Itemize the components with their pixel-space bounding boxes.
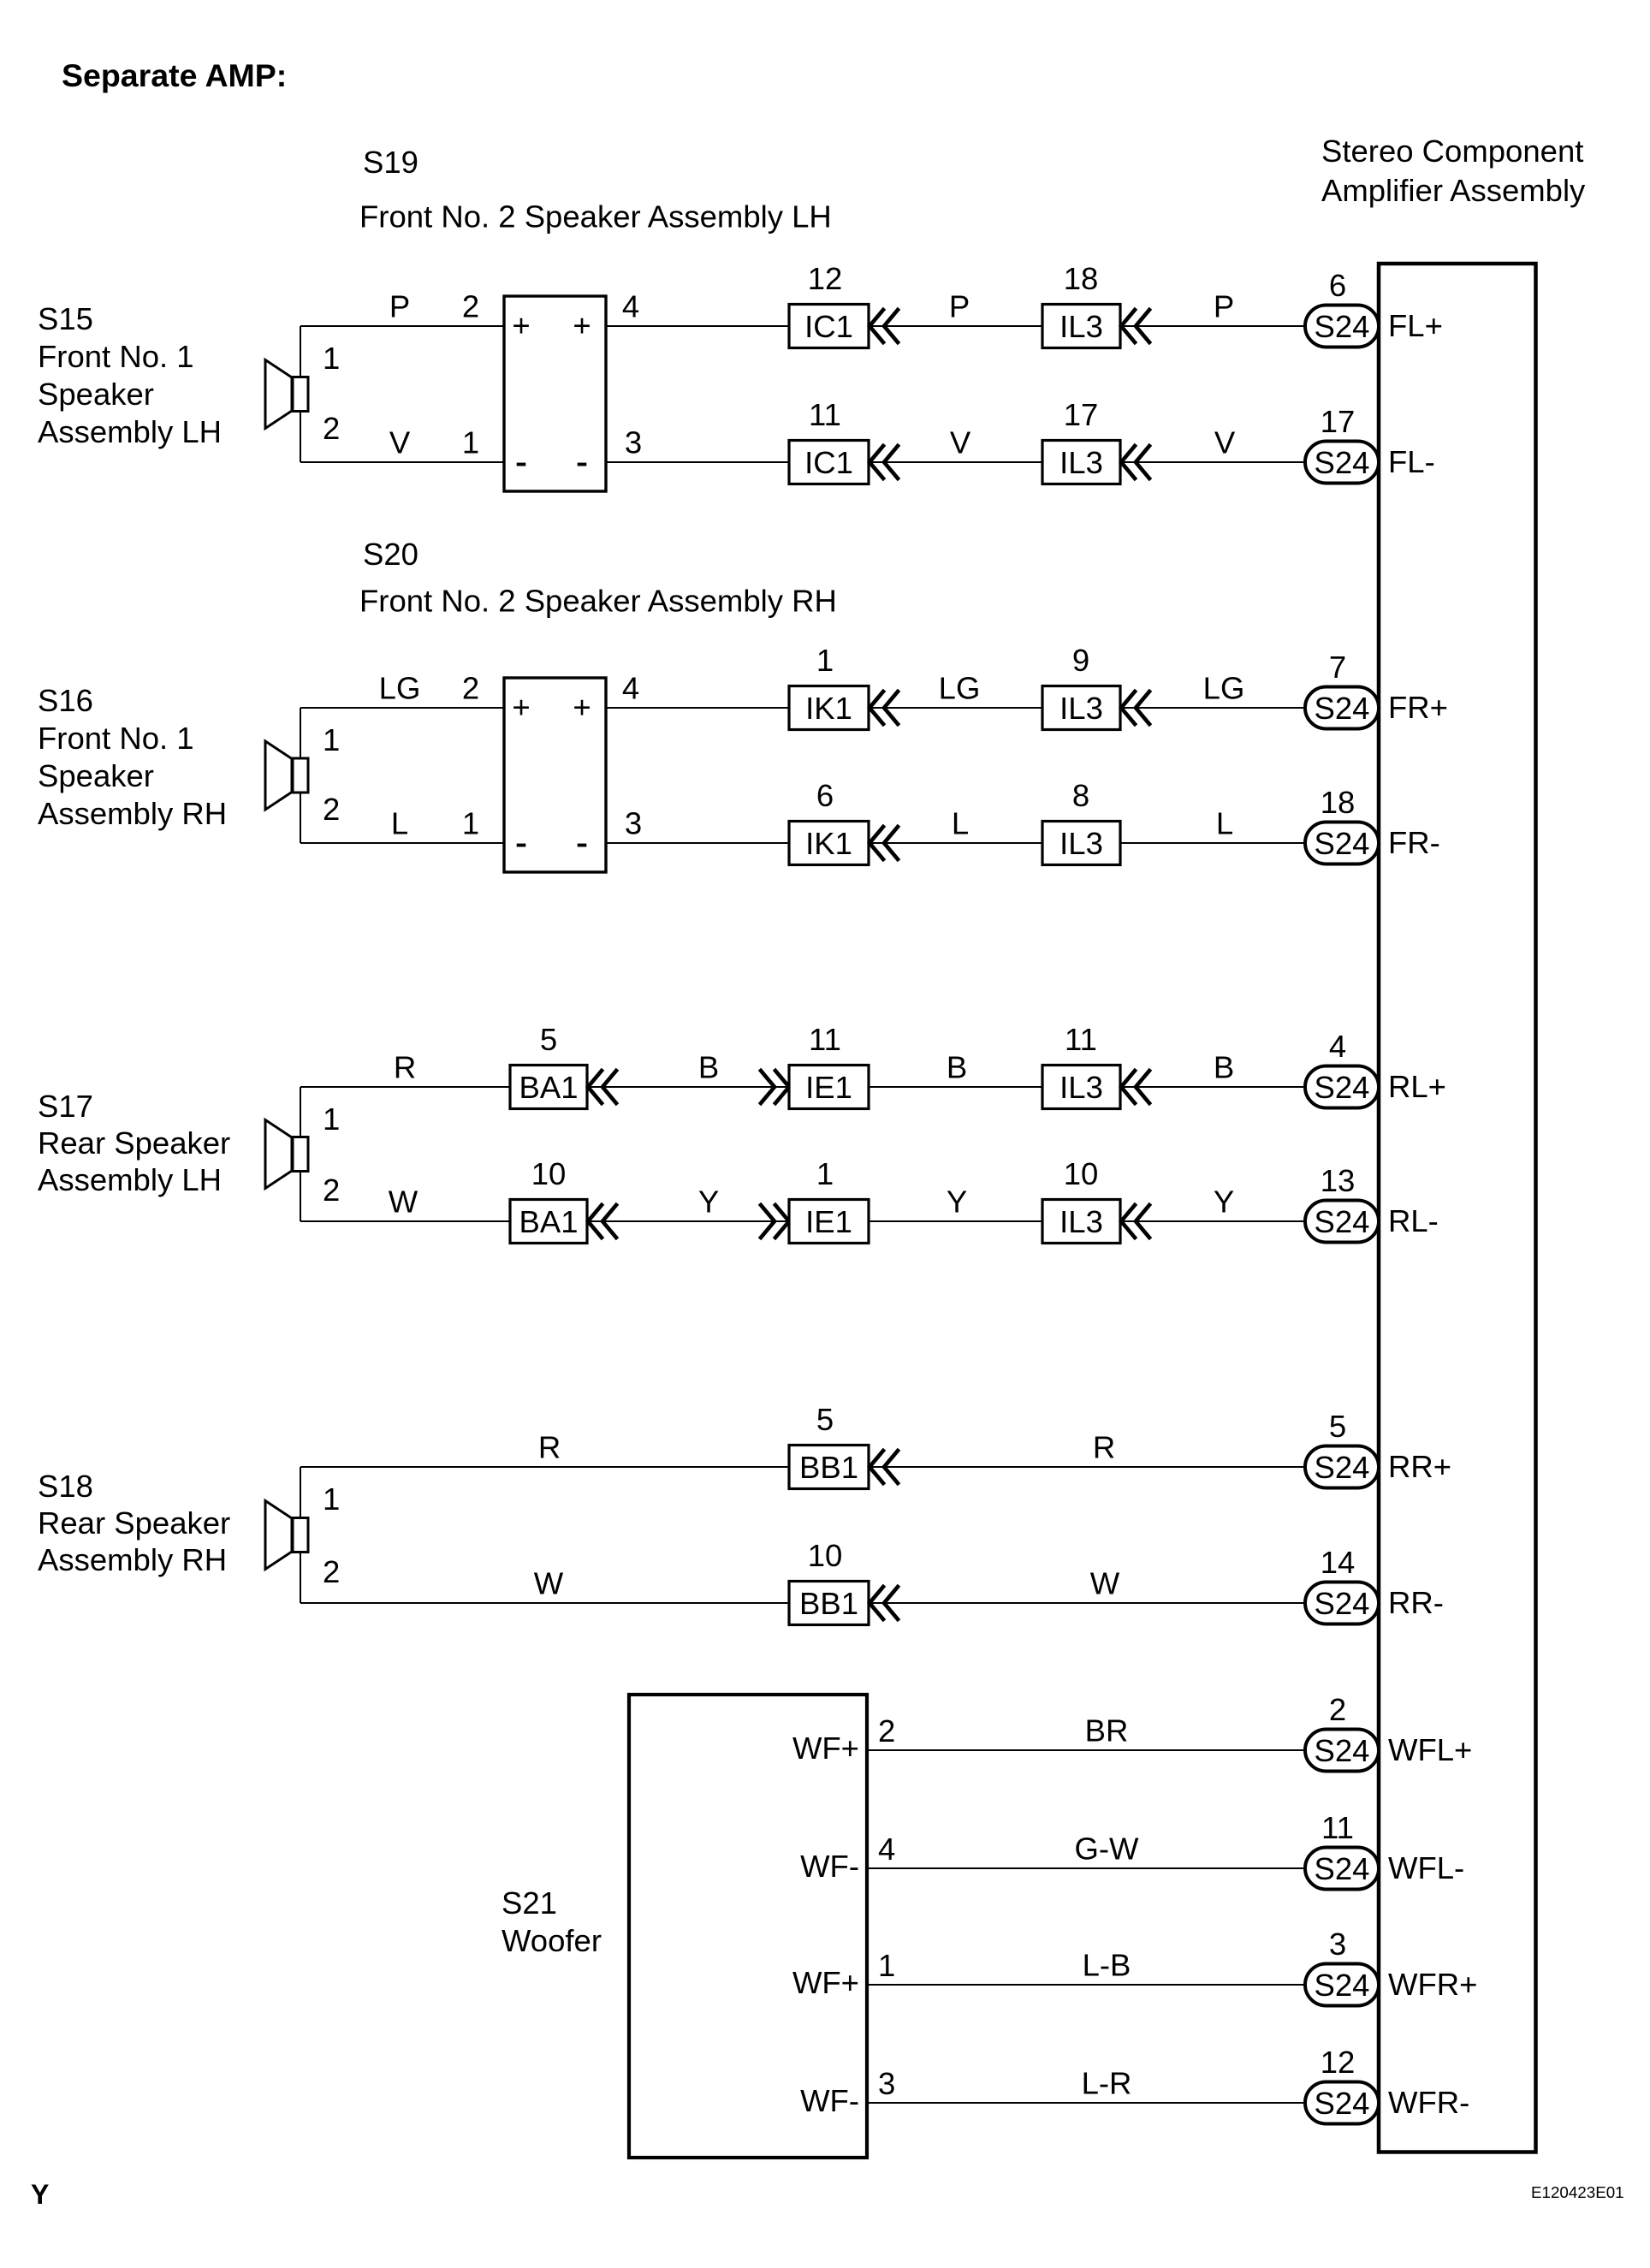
svg-text:3: 3	[625, 806, 642, 841]
svg-text:WFL-: WFL-	[1388, 1850, 1464, 1885]
svg-text:2: 2	[462, 289, 479, 324]
svg-text:Rear Speaker: Rear Speaker	[38, 1125, 230, 1161]
svg-text:Y: Y	[698, 1184, 719, 1220]
svg-text:S21: S21	[502, 1885, 557, 1921]
svg-text:3: 3	[625, 425, 642, 460]
svg-text:LG: LG	[379, 671, 421, 706]
svg-text:Y: Y	[947, 1184, 967, 1220]
svg-text:IL3: IL3	[1059, 445, 1103, 480]
svg-text:FR-: FR-	[1388, 825, 1440, 860]
svg-text:Front No. 2 Speaker Assembly L: Front No. 2 Speaker Assembly LH	[359, 199, 832, 235]
svg-text:6: 6	[816, 778, 834, 813]
svg-text:6: 6	[1329, 268, 1346, 303]
svg-text:+: +	[573, 690, 591, 725]
svg-text:RL-: RL-	[1388, 1203, 1439, 1238]
svg-text:4: 4	[1329, 1029, 1346, 1064]
svg-text:12: 12	[808, 261, 843, 296]
svg-text:14: 14	[1321, 1545, 1356, 1580]
svg-text:Assembly RH: Assembly RH	[38, 1542, 227, 1577]
svg-text:P: P	[389, 289, 410, 324]
svg-text:Y: Y	[1214, 1184, 1234, 1220]
svg-text:WFR+: WFR+	[1388, 1967, 1477, 2002]
svg-text:Assembly RH: Assembly RH	[38, 796, 227, 831]
svg-text:WF+: WF+	[792, 1731, 859, 1766]
svg-text:IL3: IL3	[1059, 691, 1103, 726]
svg-text:2: 2	[878, 1713, 895, 1748]
svg-text:FL-: FL-	[1388, 444, 1435, 479]
svg-text:R: R	[1093, 1430, 1115, 1465]
svg-text:Woofer: Woofer	[502, 1923, 602, 1958]
svg-text:3: 3	[878, 2066, 895, 2101]
svg-text:1: 1	[323, 341, 340, 376]
svg-text:IK1: IK1	[805, 691, 852, 726]
svg-text:RR+: RR+	[1388, 1449, 1451, 1484]
svg-text:S24: S24	[1315, 1968, 1370, 2003]
svg-text:10: 10	[531, 1156, 567, 1191]
svg-text:RR-: RR-	[1388, 1585, 1444, 1620]
svg-text:WF-: WF-	[800, 1849, 859, 1884]
svg-text:FR+: FR+	[1388, 690, 1448, 725]
svg-text:W: W	[389, 1184, 418, 1220]
svg-text:Front No. 2 Speaker Assembly R: Front No. 2 Speaker Assembly RH	[359, 584, 837, 619]
svg-text:Front No. 1: Front No. 1	[38, 339, 194, 374]
svg-text:4: 4	[622, 289, 639, 324]
svg-text:1: 1	[462, 806, 479, 841]
svg-text:RL+: RL+	[1388, 1069, 1446, 1104]
svg-text:S24: S24	[1315, 2086, 1370, 2121]
svg-text:WF-: WF-	[800, 2083, 859, 2118]
svg-text:L: L	[1216, 806, 1233, 841]
svg-text:5: 5	[540, 1022, 557, 1057]
svg-text:V: V	[1214, 425, 1236, 460]
svg-text:Front No. 1: Front No. 1	[38, 721, 194, 756]
svg-text:1: 1	[878, 1948, 895, 1983]
svg-text:IE1: IE1	[805, 1204, 852, 1239]
svg-text:S19: S19	[363, 145, 418, 180]
svg-text:13: 13	[1321, 1163, 1356, 1198]
svg-text:1: 1	[816, 1156, 834, 1191]
svg-text:LG: LG	[939, 671, 981, 706]
svg-text:IL3: IL3	[1059, 1204, 1103, 1239]
svg-text:E120423E01: E120423E01	[1531, 2183, 1624, 2201]
svg-text:S24: S24	[1315, 309, 1370, 344]
svg-text:Separate AMP:: Separate AMP:	[62, 57, 287, 93]
svg-text:2: 2	[323, 792, 340, 827]
svg-text:G-W: G-W	[1075, 1832, 1140, 1867]
svg-text:8: 8	[1072, 778, 1089, 813]
svg-text:S18: S18	[38, 1469, 93, 1504]
svg-text:Y: Y	[31, 2179, 49, 2210]
svg-text:Rear Speaker: Rear Speaker	[38, 1505, 230, 1541]
svg-text:4: 4	[622, 671, 639, 706]
svg-text:WFL+: WFL+	[1388, 1732, 1472, 1767]
svg-text:S24: S24	[1315, 826, 1370, 861]
svg-text:BB1: BB1	[799, 1586, 858, 1621]
svg-text:IL3: IL3	[1059, 826, 1103, 861]
svg-text:9: 9	[1072, 643, 1089, 678]
svg-text:W: W	[1090, 1566, 1120, 1601]
svg-text:IC1: IC1	[804, 309, 853, 344]
svg-text:1: 1	[323, 1481, 340, 1517]
svg-text:V: V	[389, 425, 411, 460]
svg-text:4: 4	[878, 1832, 895, 1867]
svg-text:S24: S24	[1315, 1204, 1370, 1239]
svg-text:LG: LG	[1203, 671, 1245, 706]
svg-text:V: V	[950, 425, 971, 460]
svg-text:17: 17	[1064, 397, 1099, 432]
svg-text:5: 5	[816, 1402, 834, 1437]
svg-text:IE1: IE1	[805, 1070, 852, 1105]
svg-text:17: 17	[1321, 404, 1356, 439]
svg-text:S24: S24	[1315, 445, 1370, 480]
svg-text:L-R: L-R	[1082, 2066, 1132, 2101]
svg-text:B: B	[698, 1050, 719, 1085]
svg-text:12: 12	[1321, 2045, 1356, 2080]
svg-text:1: 1	[462, 425, 479, 460]
svg-text:2: 2	[323, 1173, 340, 1208]
svg-text:7: 7	[1329, 650, 1346, 685]
svg-text:2: 2	[323, 1554, 340, 1589]
svg-text:BA1: BA1	[519, 1070, 579, 1105]
svg-text:IL3: IL3	[1059, 1070, 1103, 1105]
svg-text:Speaker: Speaker	[38, 377, 154, 412]
svg-text:B: B	[947, 1050, 967, 1085]
svg-text:10: 10	[1064, 1156, 1099, 1191]
svg-text:2: 2	[462, 671, 479, 706]
svg-text:L: L	[391, 806, 408, 841]
svg-text:Assembly LH: Assembly LH	[38, 414, 222, 449]
svg-text:+: +	[512, 690, 530, 725]
svg-text:R: R	[394, 1050, 416, 1085]
svg-text:+: +	[512, 308, 530, 343]
svg-text:2: 2	[323, 411, 340, 446]
svg-text:W: W	[534, 1566, 564, 1601]
svg-text:+: +	[573, 308, 591, 343]
svg-text:WFR-: WFR-	[1388, 2085, 1469, 2120]
svg-text:S15: S15	[38, 301, 93, 336]
svg-text:1: 1	[323, 722, 340, 757]
svg-text:IK1: IK1	[805, 826, 852, 861]
svg-text:BA1: BA1	[519, 1204, 579, 1239]
svg-text:WF+: WF+	[792, 1965, 859, 2000]
svg-text:11: 11	[1065, 1022, 1097, 1057]
svg-text:3: 3	[1329, 1927, 1346, 1962]
svg-text:P: P	[1214, 289, 1234, 324]
svg-text:S24: S24	[1315, 1586, 1370, 1621]
svg-text:18: 18	[1064, 261, 1099, 296]
svg-text:S24: S24	[1315, 1070, 1370, 1105]
svg-text:FL+: FL+	[1388, 308, 1443, 343]
svg-text:S24: S24	[1315, 1733, 1370, 1768]
svg-text:S17: S17	[38, 1089, 93, 1124]
svg-text:18: 18	[1321, 785, 1356, 820]
svg-text:BR: BR	[1085, 1713, 1129, 1748]
svg-text:5: 5	[1329, 1409, 1346, 1444]
svg-text:11: 11	[809, 397, 841, 432]
svg-text:11: 11	[809, 1022, 841, 1057]
svg-text:11: 11	[1321, 1810, 1354, 1845]
svg-text:10: 10	[808, 1538, 843, 1573]
svg-text:R: R	[538, 1430, 561, 1465]
svg-text:S24: S24	[1315, 1851, 1370, 1886]
svg-text:Stereo Component: Stereo Component	[1321, 134, 1583, 169]
svg-text:L: L	[952, 806, 969, 841]
svg-text:Speaker: Speaker	[38, 758, 154, 793]
svg-text:BB1: BB1	[799, 1450, 858, 1485]
svg-text:Amplifier Assembly: Amplifier Assembly	[1321, 173, 1586, 208]
svg-text:1: 1	[816, 643, 834, 678]
svg-text:IL3: IL3	[1059, 309, 1103, 344]
svg-text:1: 1	[323, 1101, 340, 1137]
svg-text:IC1: IC1	[804, 445, 853, 480]
svg-text:P: P	[949, 289, 970, 324]
svg-text:L-B: L-B	[1083, 1948, 1131, 1983]
svg-text:2: 2	[1329, 1692, 1346, 1727]
svg-text:Assembly LH: Assembly LH	[38, 1162, 222, 1197]
svg-text:S16: S16	[38, 683, 93, 718]
svg-text:B: B	[1214, 1050, 1234, 1085]
svg-text:S20: S20	[363, 537, 418, 572]
svg-text:S24: S24	[1315, 1450, 1370, 1485]
svg-text:S24: S24	[1315, 691, 1370, 726]
